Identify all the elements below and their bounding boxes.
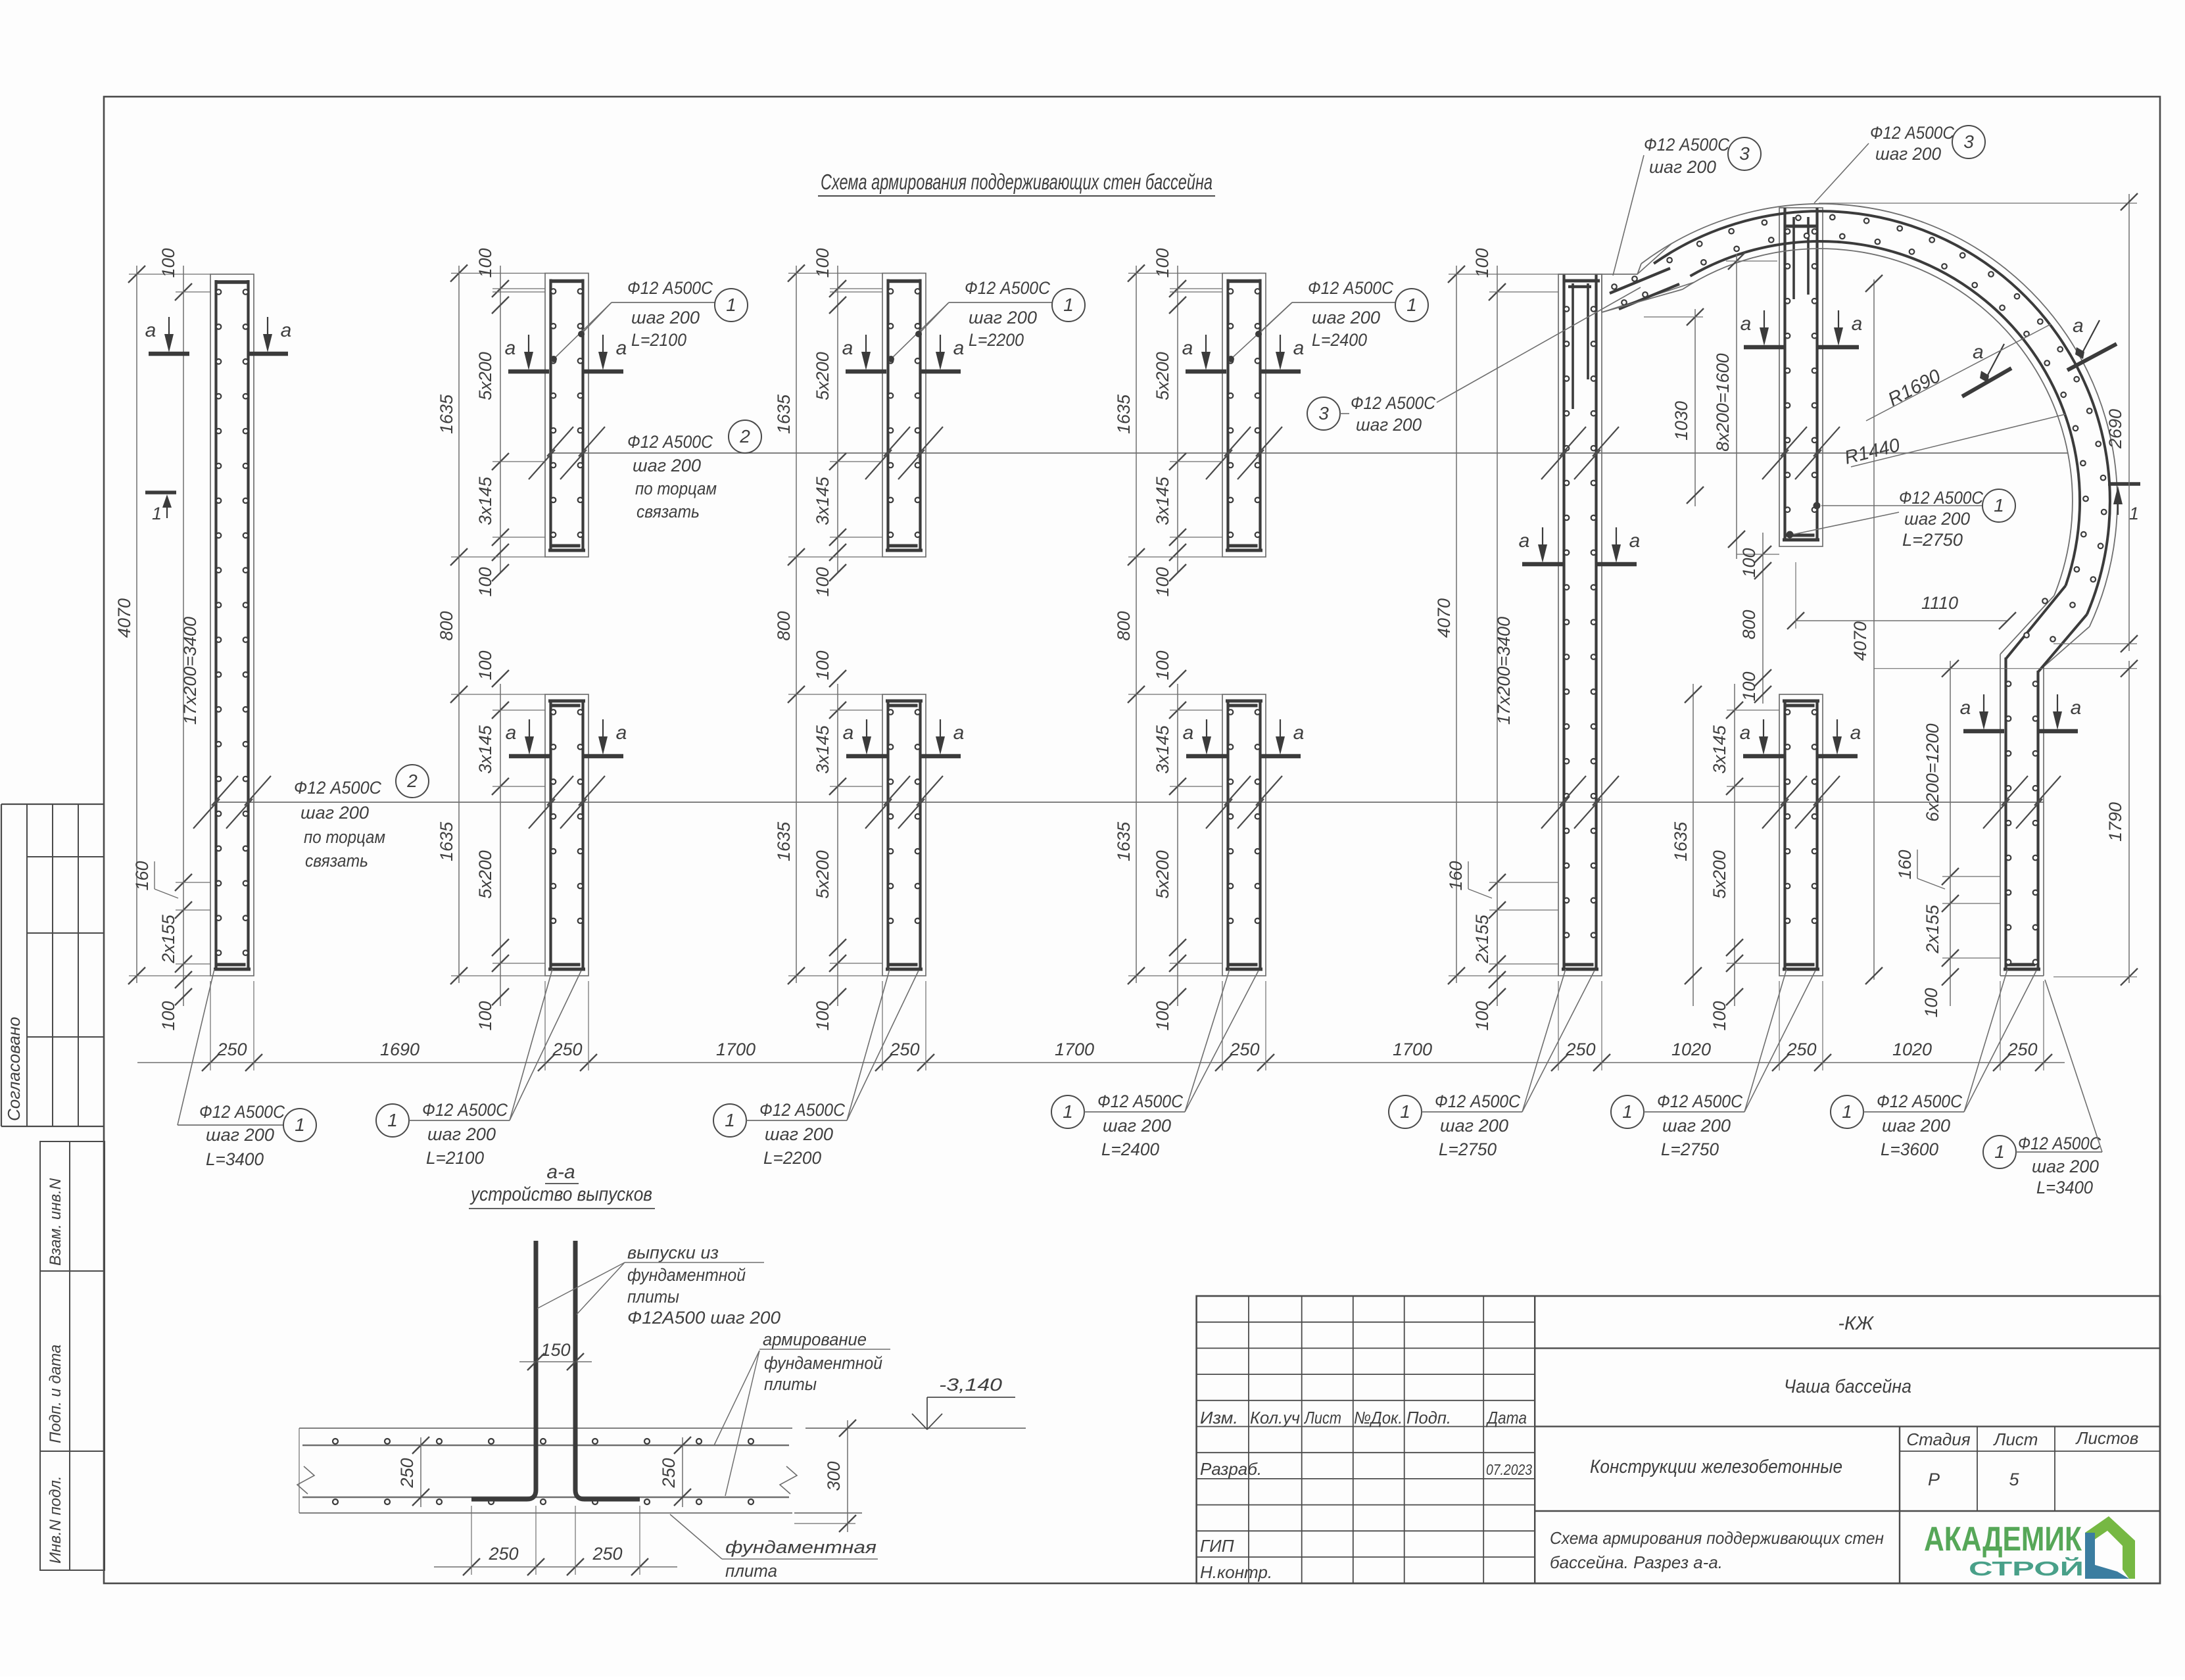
- svg-text:250: 250: [592, 1544, 622, 1564]
- svg-text:Ф12 А500С: Ф12 А500С: [1657, 1092, 1742, 1111]
- svg-text:плиты: плиты: [627, 1287, 679, 1307]
- svg-text:5x200: 5x200: [1153, 352, 1172, 400]
- left margin approval table: [1, 804, 105, 1126]
- svg-text:Ф12 А500С: Ф12 А500С: [965, 278, 1050, 298]
- svg-text:шаг 200: шаг 200: [1440, 1116, 1508, 1136]
- svg-text:100: 100: [475, 650, 495, 680]
- svg-text:1: 1: [152, 504, 162, 523]
- svg-text:шаг 200: шаг 200: [1882, 1116, 1950, 1136]
- svg-text:Лист: Лист: [1993, 1429, 2038, 1449]
- svg-text:Подп.: Подп.: [1406, 1408, 1451, 1428]
- svg-text:a: a: [1850, 722, 1861, 744]
- logo house icon: [2085, 1516, 2135, 1579]
- svg-text:1: 1: [295, 1115, 305, 1135]
- col6 wall top laps: [1785, 217, 1817, 299]
- svg-text:фундаментной: фундаментной: [627, 1265, 746, 1285]
- svg-text:4070: 4070: [1850, 621, 1870, 661]
- svg-text:250: 250: [659, 1458, 679, 1488]
- svg-text:L=2100: L=2100: [426, 1148, 484, 1168]
- bottom label col1 (L=3400): [178, 969, 316, 1169]
- detail: dim 250 left vertical: [329, 1437, 429, 1507]
- svg-text:устройство выпусков: устройство выпусков: [469, 1184, 652, 1205]
- wall section col3 row1: [882, 274, 926, 558]
- svg-text:1635: 1635: [437, 394, 456, 434]
- svg-text:a: a: [616, 722, 627, 744]
- svg-text:a: a: [1629, 530, 1641, 552]
- svg-text:2x155: 2x155: [158, 914, 178, 964]
- callout pos2 row1: [627, 420, 761, 521]
- wall section col4 row2: [1222, 694, 1266, 976]
- svg-text:250: 250: [2007, 1040, 2037, 1059]
- svg-text:Ф12 А500С: Ф12 А500С: [1870, 123, 1954, 143]
- svg-text:5x200: 5x200: [813, 352, 832, 400]
- svg-text:1700: 1700: [716, 1040, 756, 1059]
- svg-text:100: 100: [1739, 548, 1759, 577]
- svg-text:3x145: 3x145: [475, 476, 495, 525]
- position 1 marker right side: [2108, 484, 2140, 523]
- svg-text:Чаша бассейна: Чаша бассейна: [1784, 1376, 1911, 1397]
- svg-text:5x200: 5x200: [813, 850, 832, 899]
- long callout line row2 (pos 2): [217, 802, 2044, 803]
- svg-text:100: 100: [1472, 1001, 1492, 1030]
- svg-text:1635: 1635: [774, 394, 794, 434]
- svg-text:1: 1: [725, 1110, 735, 1130]
- slashes on row2 line: [193, 776, 2061, 828]
- dims 100/800/100 between col6 walls: [1737, 533, 1779, 704]
- bottom label col7 (L=3600): [1831, 969, 2036, 1159]
- svg-text:Ф12 А500С: Ф12 А500С: [759, 1100, 845, 1120]
- svg-text:Ф12 А500С: Ф12 А500С: [627, 278, 713, 298]
- dimensions col2: [437, 248, 545, 1030]
- svg-text:Согласовано: Согласовано: [4, 1017, 24, 1121]
- svg-text:бассейна. Разрез а-а.: бассейна. Разрез а-а.: [1550, 1552, 1723, 1572]
- svg-text:a: a: [1182, 337, 1193, 359]
- svg-text:1635: 1635: [774, 821, 794, 861]
- detail: dim 250 right vertical: [659, 1437, 736, 1507]
- section markers a-a on arc: [1962, 315, 2117, 396]
- svg-text:Р: Р: [1928, 1470, 1940, 1489]
- svg-text:L=3600: L=3600: [1881, 1140, 1938, 1159]
- svg-text:№Док.: №Док.: [1354, 1408, 1403, 1428]
- svg-text:8x200=1600: 8x200=1600: [1713, 353, 1733, 451]
- svg-text:шаг 200: шаг 200: [1103, 1116, 1171, 1136]
- svg-text:Ф12 А500С: Ф12 А500С: [422, 1100, 508, 1120]
- svg-text:1: 1: [1063, 1101, 1073, 1122]
- callout pos1 col2 (L=2100): [550, 278, 748, 362]
- section markers a-a col7: [1960, 694, 2082, 731]
- svg-text:a: a: [953, 337, 965, 359]
- svg-text:100: 100: [1710, 1001, 1729, 1030]
- svg-text:шаг 200: шаг 200: [1312, 308, 1380, 327]
- svg-text:Ф12 А500С: Ф12 А500С: [294, 778, 381, 798]
- svg-text:1: 1: [1400, 1101, 1410, 1122]
- svg-text:a: a: [281, 320, 292, 341]
- dim 8x200=1600 col6: [1713, 252, 1777, 559]
- svg-text:100: 100: [813, 650, 832, 680]
- svg-text:a: a: [1293, 337, 1305, 359]
- svg-text:1030: 1030: [1671, 401, 1691, 441]
- title block doc code: [1838, 1313, 1875, 1334]
- svg-text:1: 1: [1994, 495, 2004, 516]
- svg-text:АКАДЕМИК: АКАДЕМИК: [1924, 1520, 2082, 1558]
- svg-text:Ф12 А500С: Ф12 А500С: [1351, 393, 1435, 413]
- wall section col2 row2: [545, 694, 588, 976]
- section markers a-a col6 top: [1741, 310, 1863, 347]
- detail label: фундаментная плита: [670, 1514, 878, 1581]
- svg-text:а-а: а-а: [546, 1161, 575, 1183]
- callout pos1 arc L=2750: [1787, 488, 2016, 550]
- svg-text:100: 100: [1153, 1001, 1172, 1030]
- bottom dimension chain: [137, 981, 2065, 1071]
- svg-text:Ф12 А500С: Ф12 А500С: [199, 1102, 285, 1122]
- svg-text:фундаментная: фундаментная: [725, 1537, 876, 1557]
- svg-text:a: a: [1293, 722, 1305, 744]
- svg-text:1: 1: [1622, 1101, 1633, 1122]
- radius R1440: [1842, 414, 2065, 469]
- svg-text:100: 100: [1153, 650, 1172, 680]
- callout pos3 right: [1814, 123, 1985, 203]
- svg-text:250: 250: [1565, 1040, 1595, 1059]
- svg-text:100: 100: [1472, 248, 1492, 277]
- svg-text:250: 250: [488, 1544, 518, 1564]
- svg-text:a: a: [843, 722, 854, 744]
- dimensions col3: [774, 248, 882, 1030]
- svg-text:250: 250: [889, 1040, 919, 1059]
- svg-text:шаг 200: шаг 200: [1356, 415, 1422, 435]
- section markers a-a col6 row2: [1740, 719, 1861, 756]
- position 1 marker col1: [145, 492, 176, 523]
- svg-text:шаг 200: шаг 200: [969, 308, 1037, 327]
- svg-text:800: 800: [1114, 611, 1134, 640]
- svg-text:2690: 2690: [2105, 409, 2125, 449]
- svg-text:1: 1: [726, 295, 736, 315]
- svg-text:3x145: 3x145: [1153, 725, 1172, 774]
- svg-text:250: 250: [552, 1040, 582, 1059]
- svg-text:a: a: [842, 337, 853, 359]
- svg-text:160: 160: [1895, 850, 1915, 879]
- svg-text:17x200=3400: 17x200=3400: [1494, 617, 1514, 725]
- wall section col2 row1: [545, 274, 588, 558]
- left margin cells Взам. инв.N / Подп. и дата / Инв.N подл.: [40, 1141, 105, 1570]
- svg-text:a: a: [616, 337, 627, 359]
- svg-text:Стадия: Стадия: [1906, 1429, 1970, 1449]
- section markers a-a col2 row1: [505, 335, 627, 372]
- svg-text:2: 2: [739, 426, 750, 446]
- svg-text:Ф12 А500С: Ф12 А500С: [1644, 135, 1729, 155]
- svg-text:17x200=3400: 17x200=3400: [180, 617, 200, 725]
- svg-text:a: a: [1740, 722, 1751, 744]
- svg-text:по торцам: по торцам: [635, 479, 717, 498]
- svg-text:Инв.N подл.: Инв.N подл.: [47, 1476, 64, 1564]
- svg-text:100: 100: [158, 248, 178, 277]
- svg-text:шаг 200: шаг 200: [427, 1124, 496, 1144]
- svg-text:100: 100: [475, 248, 495, 277]
- svg-text:100: 100: [1153, 567, 1172, 596]
- svg-text:Конструкции железобетонные: Конструкции железобетонные: [1590, 1456, 1842, 1477]
- svg-text:1700: 1700: [1393, 1040, 1432, 1059]
- svg-text:L=2400: L=2400: [1101, 1140, 1159, 1159]
- svg-text:шаг 200: шаг 200: [1904, 509, 1970, 529]
- svg-text:3x145: 3x145: [1710, 725, 1729, 774]
- svg-text:100: 100: [1921, 988, 1941, 1017]
- svg-text:шаг 200: шаг 200: [765, 1124, 833, 1144]
- bottom label far right (L=3400): [1983, 980, 2102, 1197]
- svg-text:100: 100: [158, 1001, 178, 1030]
- svg-text:L=2200: L=2200: [969, 330, 1024, 350]
- title block stage/sheet headers: [1906, 1428, 2138, 1449]
- svg-text:3x145: 3x145: [1153, 476, 1172, 525]
- dots on outer rebar arc: [1667, 215, 2106, 582]
- slashes on row1 line: [529, 427, 1840, 479]
- svg-text:3x145: 3x145: [813, 476, 832, 525]
- svg-text:Лист: Лист: [1303, 1408, 1341, 1428]
- svg-text:a: a: [2073, 315, 2084, 337]
- svg-text:Изм.: Изм.: [1200, 1408, 1238, 1428]
- dim 1790 right: [2053, 660, 2138, 986]
- svg-text:L=2750: L=2750: [1902, 530, 1963, 550]
- svg-text:a: a: [1183, 722, 1194, 744]
- svg-text:1020: 1020: [1892, 1040, 1932, 1059]
- logo АКАДЕМИК СТРОЙ: [1924, 1520, 2084, 1580]
- svg-text:1635: 1635: [437, 821, 456, 861]
- svg-text:шаг 200: шаг 200: [1649, 157, 1716, 177]
- svg-text:a: a: [145, 320, 156, 341]
- svg-text:07.2023: 07.2023: [1486, 1461, 1532, 1478]
- svg-text:фундаментной: фундаментной: [764, 1353, 882, 1373]
- detail: level mark -3,140: [912, 1375, 1015, 1429]
- callout pos2 row2: [294, 765, 429, 871]
- svg-text:ГИП: ГИП: [1200, 1536, 1234, 1556]
- dimensions col1 (4070/17x200): [114, 248, 210, 1030]
- svg-text:Ф12 А500С: Ф12 А500С: [1435, 1092, 1520, 1111]
- svg-text:Разраб.: Разраб.: [1200, 1459, 1262, 1479]
- svg-text:Ф12 А500С: Ф12 А500С: [1877, 1092, 1962, 1111]
- svg-text:3: 3: [1963, 132, 1974, 152]
- detail: slab bottom rebar: [302, 1497, 789, 1504]
- detail: L-shaped outlet bars: [471, 1241, 640, 1499]
- dims col6 row2 (3x145/5x200/1635/100): [1671, 684, 1779, 1031]
- svg-text:5: 5: [2009, 1470, 2019, 1489]
- svg-text:1: 1: [1994, 1141, 2005, 1162]
- svg-text:1020: 1020: [1671, 1040, 1711, 1059]
- svg-text:160: 160: [132, 861, 152, 890]
- svg-text:СТРОЙ: СТРОЙ: [1969, 1556, 2084, 1580]
- svg-text:3: 3: [1739, 143, 1750, 164]
- callout pos1 col4 (L=2400): [1228, 278, 1428, 362]
- title block sheet name: [1590, 1456, 1842, 1477]
- bottom label col2 (L=2100): [376, 969, 581, 1168]
- dimensions col5 (4070/17x200): [1434, 248, 1558, 1030]
- title block object name: [1784, 1376, 1911, 1397]
- title block header texts: [1200, 1408, 1527, 1428]
- wall section col6 top (under arc): [1779, 208, 1823, 546]
- svg-text:4070: 4070: [114, 598, 134, 638]
- detail a-a title: [469, 1161, 655, 1209]
- svg-text:Ф12 А500С: Ф12 А500С: [627, 432, 713, 452]
- svg-text:300: 300: [824, 1461, 844, 1491]
- svg-text:1635: 1635: [1114, 394, 1134, 434]
- svg-text:a: a: [953, 722, 965, 744]
- svg-text:250: 250: [1229, 1040, 1259, 1059]
- bottom label col6 (L=2750): [1611, 969, 1815, 1159]
- svg-text:Листов: Листов: [2075, 1428, 2139, 1448]
- col5 top elbow joint: [1558, 244, 1694, 409]
- dots on inner rebar arc: [1701, 233, 2088, 572]
- detail: slab top rebar: [302, 1439, 789, 1445]
- detail: dim 300: [794, 1420, 856, 1532]
- left margin label Согласовано: [4, 1017, 24, 1121]
- svg-text:a: a: [1741, 313, 1752, 335]
- svg-text:160: 160: [1446, 861, 1466, 890]
- svg-text:1790: 1790: [2105, 802, 2125, 842]
- dim 1110: [1787, 562, 2016, 629]
- section markers a-a col3 row1: [842, 335, 965, 372]
- svg-text:Ф12 А500С: Ф12 А500С: [1097, 1092, 1183, 1111]
- svg-text:Схема армирования поддерживающ: Схема армирования поддерживающих стен: [1550, 1528, 1884, 1548]
- svg-text:100: 100: [1153, 248, 1172, 277]
- wall section col4 row1: [1222, 274, 1266, 558]
- svg-text:100: 100: [1739, 671, 1759, 701]
- svg-text:3x145: 3x145: [813, 725, 832, 774]
- section markers a-a col3 row2: [843, 719, 965, 756]
- curved wall inner rebar arc: [1691, 241, 2080, 586]
- svg-text:1690: 1690: [380, 1040, 420, 1059]
- svg-text:по торцам: по торцам: [304, 827, 385, 847]
- svg-text:5x200: 5x200: [475, 352, 495, 400]
- svg-text:a: a: [1519, 530, 1530, 552]
- dims col7 (6x200=1200/160/2x155/100): [1874, 660, 2137, 1018]
- svg-text:800: 800: [774, 611, 794, 640]
- bottom label col3 (L=2200): [713, 969, 919, 1168]
- svg-text:250: 250: [1786, 1040, 1816, 1059]
- title block description: [1550, 1528, 1884, 1572]
- svg-text:1: 1: [387, 1110, 398, 1130]
- svg-text:связать: связать: [636, 502, 700, 521]
- dim 2690 right edge: [1819, 193, 2138, 652]
- svg-text:100: 100: [813, 567, 832, 596]
- svg-text:L=3400: L=3400: [2036, 1178, 2093, 1197]
- svg-text:2x155: 2x155: [1923, 904, 1942, 954]
- svg-text:L=2100: L=2100: [631, 330, 686, 350]
- svg-text:выпуски из: выпуски из: [627, 1243, 719, 1262]
- svg-text:-3,140: -3,140: [939, 1375, 1002, 1395]
- svg-text:плита: плита: [725, 1561, 777, 1581]
- svg-text:-КЖ: -КЖ: [1838, 1313, 1875, 1334]
- dim 4070 right: [1850, 275, 1883, 984]
- svg-text:100: 100: [813, 248, 832, 277]
- svg-text:шаг 200: шаг 200: [633, 456, 701, 475]
- svg-text:Кол.уч: Кол.уч: [1250, 1408, 1300, 1428]
- callout pos1 col3 (L=2200): [888, 278, 1085, 362]
- callout pos3 middle: [1307, 287, 1641, 435]
- section markers a-a col2 row2: [506, 719, 627, 756]
- svg-text:a: a: [1960, 697, 1971, 719]
- svg-text:a: a: [505, 337, 516, 359]
- svg-text:шаг 200: шаг 200: [631, 308, 700, 327]
- svg-text:шаг 200: шаг 200: [1662, 1116, 1731, 1136]
- svg-text:800: 800: [1739, 610, 1759, 639]
- svg-text:100: 100: [475, 567, 495, 596]
- detail label: выпуски из фундаментной плиты: [537, 1243, 780, 1328]
- section markers a-a col4 row2: [1183, 719, 1305, 756]
- title block row labels: [1200, 1459, 1532, 1582]
- svg-text:100: 100: [813, 1001, 832, 1030]
- svg-text:3: 3: [1318, 403, 1329, 423]
- svg-text:шаг 200: шаг 200: [2032, 1157, 2099, 1176]
- svg-text:800: 800: [437, 611, 456, 640]
- drawing title: [818, 170, 1215, 196]
- svg-text:1635: 1635: [1114, 821, 1134, 861]
- section markers a-a col4 row1: [1182, 335, 1305, 372]
- curved pool wall inner face: [1602, 249, 2073, 654]
- svg-text:2: 2: [406, 771, 418, 791]
- svg-text:100: 100: [475, 1001, 495, 1030]
- svg-text:1: 1: [1842, 1101, 1852, 1122]
- svg-text:1635: 1635: [1671, 821, 1691, 861]
- svg-text:1700: 1700: [1055, 1040, 1094, 1059]
- svg-text:5x200: 5x200: [1153, 850, 1172, 899]
- wall section col7 right (below curve): [2000, 654, 2044, 976]
- bottom label col4 (L=2400): [1051, 969, 1259, 1159]
- wall section col6 row2: [1779, 694, 1823, 976]
- svg-text:Подп. и дата: Подп. и дата: [47, 1345, 64, 1443]
- wall section col3 row2: [882, 694, 926, 976]
- svg-text:Взам. инв.N: Взам. инв.N: [47, 1178, 64, 1266]
- svg-text:250: 250: [397, 1458, 417, 1488]
- svg-text:L=2750: L=2750: [1439, 1140, 1497, 1159]
- svg-text:Н.контр.: Н.контр.: [1200, 1562, 1272, 1582]
- svg-text:2x155: 2x155: [1472, 914, 1492, 964]
- svg-text:150: 150: [540, 1340, 570, 1360]
- svg-text:связать: связать: [305, 851, 368, 871]
- wall section col5 (tall, elbow top): [1558, 274, 1602, 976]
- svg-text:1: 1: [2129, 504, 2139, 523]
- svg-text:5x200: 5x200: [475, 850, 495, 899]
- svg-text:6x200=1200: 6x200=1200: [1923, 723, 1942, 821]
- detail label: армирование фундаментной плиты: [714, 1330, 890, 1496]
- callout pos3 left: [1613, 135, 1761, 276]
- svg-text:1: 1: [1063, 295, 1074, 315]
- wall section col1 (tall, 4070): [210, 274, 254, 976]
- svg-text:1: 1: [1406, 295, 1417, 315]
- svg-text:армирование: армирование: [763, 1330, 867, 1349]
- bottom label col5 (L=2750): [1389, 969, 1595, 1159]
- svg-text:L=3400: L=3400: [206, 1149, 264, 1169]
- detail: dims 250 250 bottom: [434, 1506, 677, 1575]
- svg-text:Дата: Дата: [1485, 1408, 1527, 1428]
- dim 1030 col6: [1644, 308, 1704, 506]
- svg-text:L=2750: L=2750: [1661, 1140, 1719, 1159]
- title block stage values: [1928, 1470, 2019, 1489]
- svg-text:3x145: 3x145: [475, 725, 495, 774]
- svg-text:шаг 200: шаг 200: [206, 1125, 274, 1145]
- long callout line row1 (pos 2): [551, 452, 2068, 454]
- svg-text:L=2400: L=2400: [1312, 330, 1367, 350]
- detail: dim 150: [519, 1340, 592, 1370]
- section markers a-a col5: [1519, 527, 1641, 564]
- svg-text:плиты: плиты: [764, 1374, 817, 1394]
- svg-text:a: a: [506, 722, 517, 744]
- svg-text:шаг 200: шаг 200: [1875, 144, 1941, 164]
- svg-text:5x200: 5x200: [1710, 850, 1729, 899]
- svg-text:Ф12 А500С: Ф12 А500С: [2018, 1134, 2101, 1153]
- dimensions col4: [1114, 248, 1222, 1030]
- svg-text:Ф12 А500С: Ф12 А500С: [1899, 488, 1983, 508]
- svg-text:4070: 4070: [1434, 598, 1454, 638]
- svg-text:a: a: [2071, 697, 2082, 719]
- svg-text:Схема армирования поддерживающ: Схема армирования поддерживающих стен ба…: [821, 170, 1213, 194]
- curved pool wall outer face: [1637, 204, 2117, 667]
